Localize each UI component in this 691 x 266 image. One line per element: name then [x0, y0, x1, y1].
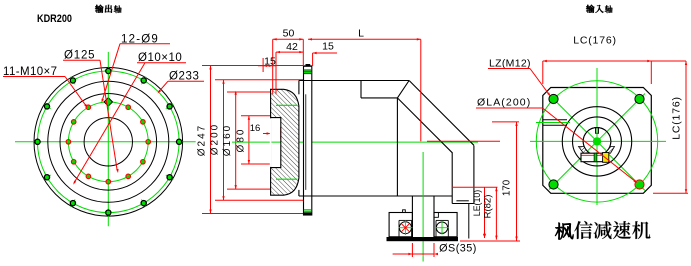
dimension D80 — [236, 116, 271, 164]
centerline vertical — [596, 68, 598, 205]
svg-text:LZ(M12): LZ(M12) — [489, 58, 531, 70]
svg-text:Ø80: Ø80 — [236, 128, 247, 153]
output bell flange section (hatched) — [271, 89, 299, 195]
svg-text:R(82): R(82) — [483, 195, 494, 219]
square flange outline — [543, 88, 652, 194]
screw right — [436, 219, 448, 221]
dimension 15 right — [313, 40, 337, 66]
circle intermediate 2 — [60, 94, 157, 191]
centerline horizontal — [15, 141, 196, 143]
bolt circle D125 green — [68, 102, 148, 182]
input flange square view — [530, 68, 666, 205]
45deg input housing — [397, 81, 474, 239]
label D233 — [158, 71, 205, 94]
pilot circle — [573, 117, 622, 166]
bearing housing left — [389, 213, 412, 237]
svg-text:LC(176): LC(176) — [671, 96, 683, 140]
bolt holes D9 inner ring (red) — [66, 105, 150, 184]
svg-text:Ø200: Ø200 — [210, 123, 221, 155]
bolt circle outer green — [38, 71, 180, 213]
svg-text:42: 42 — [286, 41, 298, 53]
svg-text:Ø160: Ø160 — [222, 124, 233, 156]
label input shaft — [586, 5, 594, 13]
label output shaft — [95, 5, 103, 13]
side port lines — [543, 119, 567, 121]
svg-text:50: 50 — [283, 28, 295, 40]
keyway section bottom — [304, 209, 312, 211]
dimension OS(35) — [393, 243, 477, 258]
svg-text:ØLA(200): ØLA(200) — [477, 97, 531, 109]
svg-text:Ø247: Ø247 — [197, 124, 208, 156]
diagonal centerlines — [549, 95, 645, 191]
dimension 16 — [250, 123, 294, 139]
dimension R(82) — [452, 187, 498, 239]
bore centerlines — [596, 129, 598, 156]
body circle outer — [562, 107, 631, 176]
bore keyway slot — [596, 128, 599, 134]
svg-text:LE(10): LE(10) — [472, 190, 482, 216]
bolt circle LA200 green — [536, 81, 657, 202]
dimension L — [308, 28, 500, 142]
label 12-D9 — [102, 34, 171, 103]
dimension D160 — [222, 91, 276, 189]
clamp block — [581, 153, 609, 162]
svg-text:L: L — [358, 28, 364, 40]
label D10x10 — [73, 52, 186, 185]
shaft bore circle — [583, 128, 611, 156]
corner bolt holes LZ M12 — [549, 94, 558, 103]
dimension LC(176) right — [653, 61, 688, 193]
label 11-M10x7 — [3, 66, 88, 108]
square hole 10x10 (diamond) — [104, 98, 112, 106]
base plate — [387, 237, 459, 241]
input shaft axis — [422, 152, 424, 262]
bearing housing right — [434, 213, 457, 237]
bell bolt hole centerlines — [276, 104, 298, 106]
centerline vertical — [107, 52, 109, 226]
dimension 50 — [273, 28, 304, 95]
screw left — [399, 219, 412, 221]
flange plate D233 disc — [304, 66, 312, 215]
dimension LE(10) — [472, 188, 486, 239]
svg-text:KDR200: KDR200 — [37, 13, 72, 25]
input shaft tube — [411, 196, 413, 237]
label LZ(M12) — [488, 58, 551, 97]
dimension D200 — [210, 80, 312, 201]
centerline horizontal — [530, 140, 666, 142]
svg-text:170: 170 — [502, 179, 513, 196]
dimension 15 left — [258, 55, 277, 72]
dimension 170 — [460, 122, 520, 241]
svg-text:LC(176): LC(176) — [573, 35, 617, 47]
dimension LC(176) top — [543, 35, 686, 85]
svg-text:15: 15 — [322, 40, 334, 52]
output flange circular view — [3, 34, 204, 227]
circle D233 outer — [34, 68, 183, 217]
label D125 — [63, 50, 119, 174]
bolt holes M10 outer ring — [33, 67, 183, 217]
dimension D247 — [197, 66, 309, 214]
label OLA(200) — [476, 97, 637, 184]
side port centerline — [536, 122, 570, 124]
keyway section top — [306, 64, 311, 66]
gearbox body outline — [299, 81, 452, 197]
circle intermediate 1 — [48, 81, 169, 202]
dimension 42 — [276, 41, 303, 94]
shaft clamp hatched collar — [579, 147, 615, 154]
svg-text:16: 16 — [250, 123, 261, 134]
yellow key — [603, 153, 609, 163]
circle hub bore — [84, 118, 132, 166]
section view centerline — [232, 141, 478, 143]
svg-text:ØS(35): ØS(35) — [439, 243, 477, 255]
brand title — [555, 223, 573, 240]
